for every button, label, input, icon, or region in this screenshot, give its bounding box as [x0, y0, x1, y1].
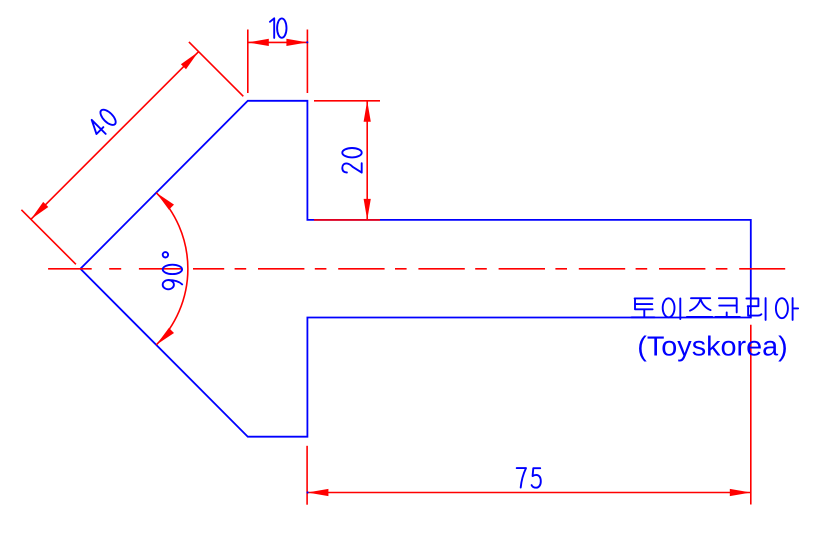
svg-text:(Toyskorea): (Toyskorea): [637, 331, 787, 362]
